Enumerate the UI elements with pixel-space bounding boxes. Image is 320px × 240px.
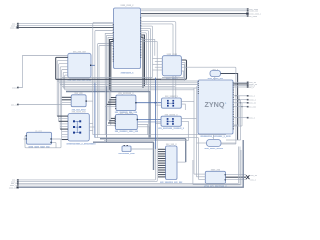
wires C right pins	[89, 124, 95, 131]
wire top bundle U1 to right ports	[141, 9, 247, 16]
block K mdm	[153, 54, 182, 80]
svg-text:xxx_xxxxx_x: xxx_xxxxx_x	[165, 96, 179, 98]
svg-text:xxx_xxx_xxx: xxx_xxx_xxx	[73, 51, 87, 53]
svg-text:xxxx_xxxx: xxxx_xxxx	[167, 54, 178, 56]
port labels ZYNQ right	[247, 82, 258, 120]
port usb_uart	[10, 26, 114, 29]
svg-text:xxx_xxx: xxx_xxx	[75, 93, 84, 95]
wire T right to D	[135, 102, 161, 104]
svg-text:xxx_x: xxx_x	[249, 118, 255, 120]
svg-text:xxx_xxx_x: xxx_xxx_x	[166, 144, 177, 146]
svg-text:xxx_xx: xxx_xx	[250, 175, 257, 177]
block E axi protocol converter 1	[158, 114, 185, 130]
svg-text:xxxx_xxx: xxxx_xxx	[249, 11, 259, 13]
svg-text:xxxx_x: xxxx_x	[249, 100, 256, 102]
block ZYNQ processing_system7_0	[198, 80, 233, 138]
svg-text:xxxxxxxxx_x: xxxxxxxxx_x	[121, 73, 135, 75]
svg-text:xxx_xxxxxxx_xxxx_xxx: xxx_xxxxxxx_xxxx_xxx	[115, 131, 139, 133]
svg-text:xx_xxx: xx_xxx	[249, 107, 256, 109]
port irq	[247, 15, 258, 18]
svg-text:xxx_xxxxx_x: xxx_xxxxx_x	[165, 114, 179, 116]
block F axi_emc	[160, 144, 183, 184]
svg-text:xxx_xx: xxx_xx	[249, 103, 256, 105]
block D axi protocol converter 0	[162, 96, 182, 108]
svg-text:xxx_xxxxxxx_x: xxx_xxxxxxx_x	[118, 93, 134, 95]
ports bottom left	[9, 140, 243, 189]
svg-text:xxxxxxxxxx_xxxx: xxxxxxxxxx_xxxx	[118, 153, 135, 155]
block M axi_gpio	[107, 113, 161, 138]
svg-text:xxxx_xxxxx_xxxxxx: xxxx_xxxxx_xxxxxx	[204, 148, 223, 150]
block W util_vector_logic	[26, 131, 52, 149]
wires F ladder	[156, 149, 166, 177]
block C axi_interconnect	[67, 112, 97, 146]
port CLK_IN	[12, 23, 113, 26]
port X right bottom	[246, 175, 258, 182]
svg-text:xxxx_xxxx_x: xxxx_xxxx_x	[121, 5, 135, 7]
wire A right pin	[90, 65, 95, 66]
svg-text:xxxxxxxxxx_xxxxxxxx_x_xxxx: xxxxxxxxxx_xxxxxxxx_x_xxxx	[200, 136, 231, 138]
svg-text:xxx_xxxx_xxx: xxx_xxxx_xxx	[72, 112, 87, 114]
wire verticals to C ladder	[57, 81, 111, 142]
block B clk_wiz	[62, 93, 93, 112]
wires D	[156, 88, 195, 174]
block S2 below ZYNQ	[197, 134, 237, 150]
wires ZYNQ right ports	[233, 82, 247, 117]
wires ZYNQ verticals right	[221, 87, 242, 144]
block U1 microblaze_0	[113, 5, 141, 74]
wires A left pins wrap	[57, 61, 68, 90]
wires E	[156, 86, 197, 177]
block G xlconstant	[118, 145, 153, 155]
wire channel2	[93, 78, 226, 180]
wire channel mid	[56, 57, 198, 138]
svg-text:xx_xxxx: xx_xxxx	[249, 16, 258, 18]
port mid left	[11, 104, 71, 107]
svg-text:xxxxxxxxxxxx_x_xxxxxxxxxx: xxxxxxxxxxxx_x_xxxxxxxxxx	[67, 144, 97, 146]
svg-text:xxxx_xxx: xxxx_xxx	[211, 170, 221, 172]
svg-text:xxx_x: xxx_x	[250, 179, 256, 181]
wire F right pin	[177, 161, 186, 163]
block T axi_uartlite	[105, 93, 138, 114]
wire fan right of U1	[141, 22, 176, 139]
port FIXED_IO	[247, 10, 259, 13]
wires C left ladder	[57, 116, 68, 139]
svg-text:xx_xxx: xx_xxx	[35, 131, 42, 133]
wire S1 to right vertical	[181, 67, 237, 140]
svg-text:xxx_xxx_xxx: xxx_xxx_xxx	[120, 113, 134, 115]
block A rst_clk_wiz	[68, 51, 92, 81]
svg-text:xxx_x: xxx_x	[212, 69, 218, 71]
svg-text:xxx_xxxxxxxx_xxxxxxx_x: xxx_xxxxxxxx_xxxxxxx_x	[158, 128, 185, 130]
wire bundle around U1 left	[93, 22, 114, 137]
block H proc_sys_reset	[194, 170, 246, 188]
svg-text:ZYNQ✦: ZYNQ✦	[205, 100, 227, 109]
wire W feedback loop	[24, 136, 62, 148]
port reset	[11, 25, 114, 28]
wires K right wrap	[160, 63, 185, 81]
icons C interconnect	[73, 120, 81, 133]
port bus out	[246, 12, 262, 15]
svg-text:xxx_x: xxx_x	[249, 96, 255, 98]
port reset rtl	[12, 56, 68, 90]
port DDR	[247, 8, 259, 11]
block S1 sys clock	[208, 69, 224, 80]
